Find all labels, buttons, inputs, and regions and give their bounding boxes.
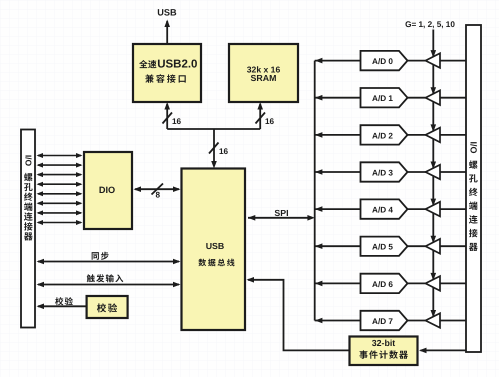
svg-text:A/D 5: A/D 5	[372, 243, 393, 252]
svg-text:DIO: DIO	[99, 185, 115, 195]
svg-text:USB: USB	[157, 8, 177, 18]
svg-text:A/D 7: A/D 7	[372, 317, 393, 326]
svg-text:A/D 3: A/D 3	[372, 168, 393, 177]
svg-text:A/D 6: A/D 6	[372, 280, 393, 289]
svg-text:USB: USB	[206, 241, 225, 251]
svg-text:8: 8	[156, 191, 161, 200]
svg-text:A/D 1: A/D 1	[372, 94, 393, 103]
svg-text:A/D 0: A/D 0	[372, 57, 393, 66]
svg-text:SPI: SPI	[274, 208, 288, 218]
svg-text:SRAM: SRAM	[251, 73, 277, 83]
svg-text:16: 16	[172, 117, 182, 126]
svg-text:I/O: I/O	[468, 141, 478, 153]
svg-text:16: 16	[265, 117, 275, 126]
svg-text:USB2.0: USB2.0	[157, 59, 197, 71]
svg-text:A/D 2: A/D 2	[372, 131, 393, 140]
svg-text:G= 1, 2, 5, 10: G= 1, 2, 5, 10	[405, 20, 455, 29]
svg-text:A/D 4: A/D 4	[372, 206, 393, 215]
svg-text:16: 16	[219, 147, 229, 156]
svg-text:I/O: I/O	[23, 155, 33, 167]
svg-text:32-bit: 32-bit	[372, 338, 396, 348]
